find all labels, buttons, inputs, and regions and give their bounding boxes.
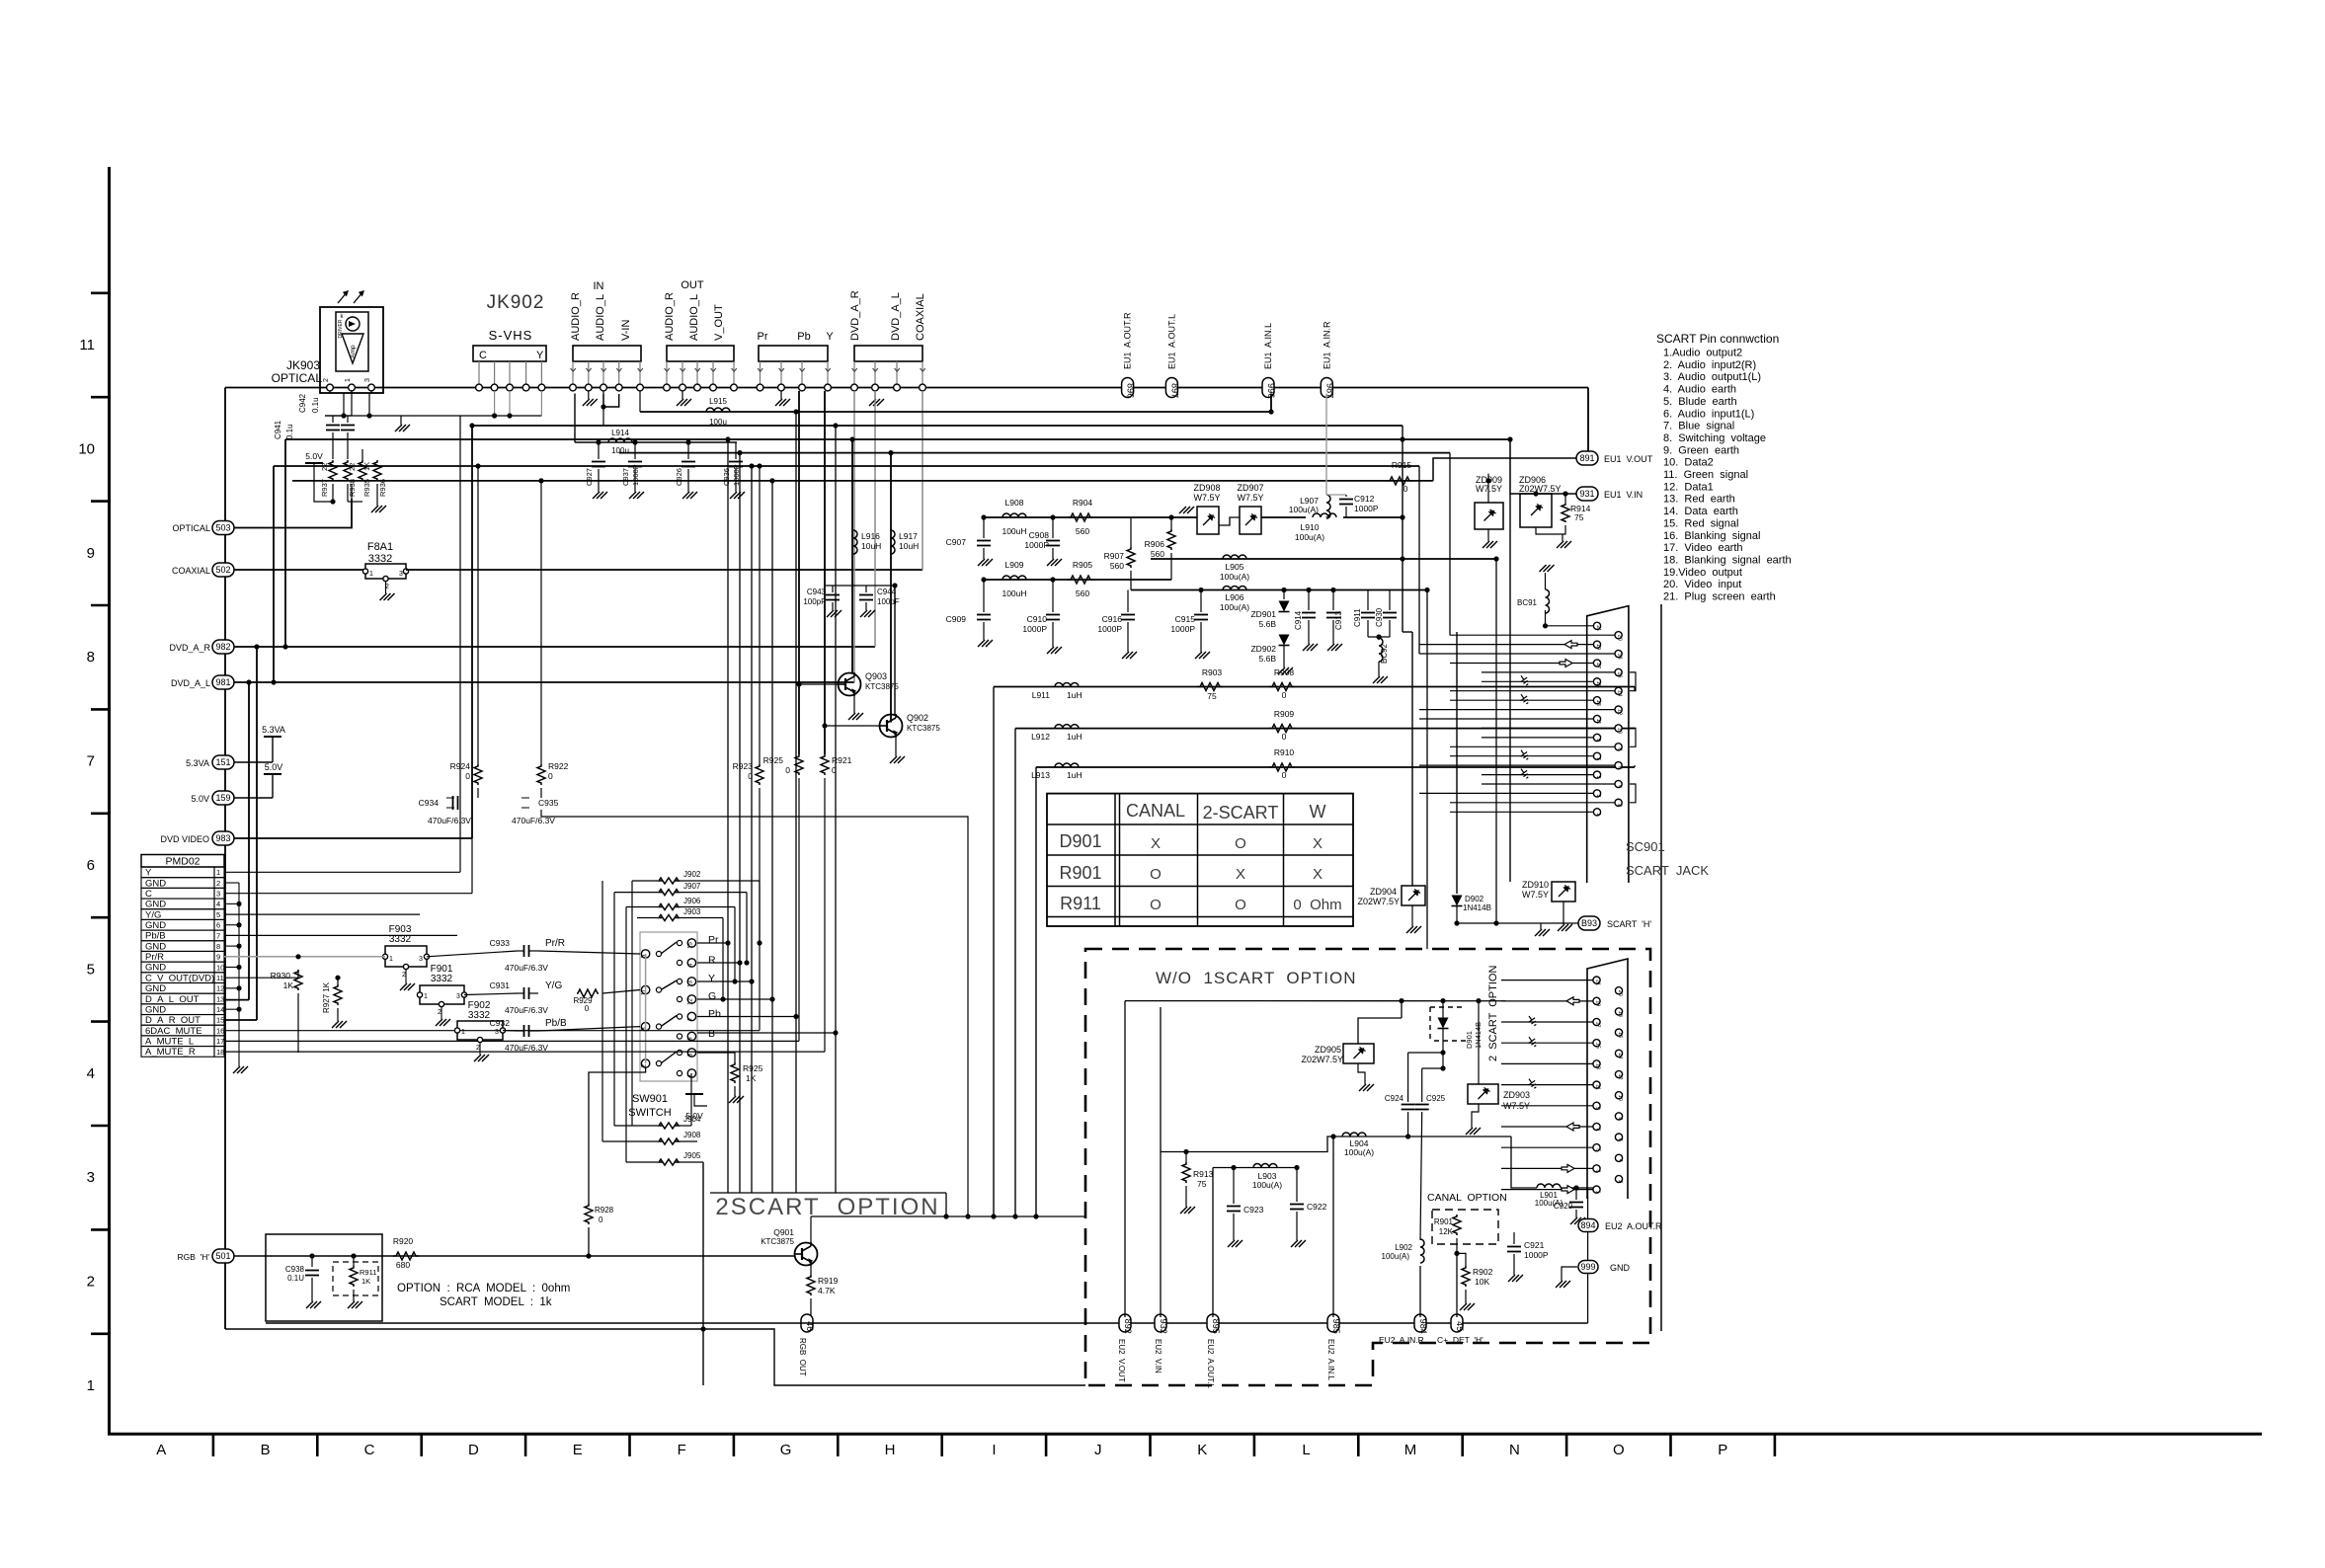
jumper J907 (678, 892, 747, 894)
svg-text:100pF: 100pF (877, 597, 900, 606)
svg-text:L902: L902 (1395, 1243, 1412, 1252)
svg-text:R922: R922 (548, 761, 569, 771)
svg-text:13: 13 (687, 980, 693, 987)
svg-text:G: G (780, 1442, 792, 1458)
wire F902 out (503, 1030, 518, 1033)
wire link upper right area (1634, 687, 1636, 691)
svg-text:Pb/B: Pb/B (145, 931, 166, 942)
oval EU1 V.OUT 891 (1576, 451, 1598, 465)
svg-text:19: 19 (1595, 1000, 1601, 1006)
svg-text:PMD02: PMD02 (165, 856, 200, 868)
svg-text:GND: GND (145, 941, 166, 952)
resistor R919 4.7K (807, 1275, 815, 1295)
svg-text:151: 151 (215, 757, 230, 767)
svg-text:W7.5Y: W7.5Y (1237, 493, 1263, 503)
svg-text:1K: 1K (283, 980, 294, 990)
wire row L913 (1036, 766, 1635, 768)
svg-text:100u(A): 100u(A) (1289, 505, 1319, 514)
svg-text:20. Video input: 20. Video input (1663, 579, 1741, 590)
svg-text:R: R (708, 955, 716, 967)
svg-text:R901: R901 (1434, 1217, 1454, 1226)
svg-text:J: J (1094, 1442, 1102, 1458)
svg-text:891: 891 (1579, 453, 1594, 463)
power 5.0V switch (685, 1093, 703, 1095)
resistor R920 680 (393, 1252, 419, 1260)
svg-text:15: 15 (216, 1016, 224, 1025)
svg-text:ZD905: ZD905 (1315, 1045, 1341, 1055)
svg-text:16: 16 (1617, 671, 1623, 677)
svg-text:R928: R928 (595, 1206, 614, 1215)
svg-text:R919: R919 (818, 1276, 839, 1286)
diode D902 1N414B (1452, 896, 1463, 906)
svg-text:EU2 V.IN: EU2 V.IN (1154, 1339, 1162, 1373)
svg-text:3: 3 (216, 890, 220, 899)
svg-text:7: 7 (1595, 757, 1601, 760)
wire jack lower stubs (1501, 980, 1593, 981)
oval EU2 A.OUT.R 894 (1578, 1219, 1598, 1232)
svg-text:12: 12 (1617, 1073, 1623, 1079)
wire verticals to options area (1402, 426, 1403, 632)
svg-text:R911: R911 (1060, 894, 1101, 913)
wire Y/G (224, 913, 420, 915)
svg-text:C_V_OUT(DVD): C_V_OUT(DVD) (145, 973, 214, 983)
inductor L906 100u(A) (1131, 589, 1427, 591)
inductor BC91 (1546, 589, 1550, 613)
svg-text:4.7K: 4.7K (818, 1286, 836, 1295)
svg-text:75: 75 (1197, 1179, 1207, 1189)
wire Pr/R grey (224, 956, 385, 958)
resistor R925 1K (731, 1062, 739, 1083)
svg-text:5.6B: 5.6B (1259, 654, 1277, 664)
svg-text:SC901: SC901 (1626, 839, 1665, 854)
svg-text:2: 2 (1617, 1180, 1623, 1183)
svg-text:C921: C921 (1524, 1240, 1545, 1250)
svg-text:Pb: Pb (708, 1008, 721, 1020)
ground stub near jk903 (400, 416, 402, 425)
wire mid bus 6 (292, 480, 1433, 482)
jumper J904 (678, 1125, 691, 1127)
capacitor C937 1000P (634, 442, 636, 459)
option component box (266, 1234, 382, 1321)
svg-text:C925: C925 (1426, 1094, 1446, 1103)
wire Pb/B (224, 934, 457, 936)
svg-text:100u(A): 100u(A) (1295, 532, 1324, 542)
svg-text:R930: R930 (271, 971, 291, 980)
svg-text:L915: L915 (709, 397, 727, 406)
svg-text:Y/G: Y/G (145, 909, 161, 920)
svg-text:GND: GND (145, 920, 166, 931)
svg-text:R911: R911 (360, 1268, 376, 1277)
svg-text:EU2 A.OUT.R: EU2 A.OUT.R (1605, 1221, 1662, 1231)
wire q901 collector (810, 1216, 812, 1243)
svg-text:3: 3 (1595, 794, 1601, 797)
svg-text:ZD908: ZD908 (1193, 483, 1220, 493)
svg-text:17: 17 (1595, 663, 1601, 668)
oval connector 159 (212, 791, 234, 805)
svg-text:EU1 V.IN: EU1 V.IN (1604, 490, 1643, 500)
svg-text:GND: GND (145, 983, 166, 994)
svg-text:680: 680 (396, 1260, 410, 1270)
capacitor C921 1000P (1513, 1232, 1515, 1244)
svg-text:W7.5Y: W7.5Y (1522, 890, 1549, 900)
jumper J906 (678, 906, 735, 908)
capacitor C925 (1421, 1068, 1423, 1102)
svg-text:4: 4 (216, 900, 220, 908)
svg-text:C922: C922 (1307, 1202, 1327, 1212)
svg-text:SCART MODEL : 1k: SCART MODEL : 1k (440, 1296, 552, 1308)
svg-text:21: 21 (1595, 980, 1601, 985)
svg-text:3332: 3332 (431, 974, 453, 984)
svg-text:Y: Y (145, 868, 152, 879)
svg-text:C935: C935 (538, 798, 559, 808)
svg-text:983: 983 (215, 833, 230, 843)
wire between zeners (1219, 517, 1240, 525)
svg-text:10: 10 (78, 440, 95, 457)
wire scart h (1457, 922, 1578, 924)
inductor BC92 (1379, 638, 1383, 662)
svg-text:C941: C941 (274, 420, 282, 439)
svg-text:J903: J903 (683, 907, 701, 916)
wire q903 base (799, 683, 839, 685)
capacitor C927 (598, 442, 600, 459)
wire c911 c930 bottom (1368, 636, 1390, 638)
svg-text:W: W (1310, 802, 1326, 822)
svg-text:20: 20 (1617, 990, 1623, 996)
svg-text:100uH: 100uH (1002, 526, 1026, 536)
svg-text:14: 14 (1617, 690, 1623, 696)
wire dvd video (234, 837, 472, 839)
svg-text:IN: IN (594, 280, 604, 292)
svg-text:SCART 'H': SCART 'H' (1607, 919, 1651, 929)
svg-text:J906: J906 (683, 897, 701, 905)
svg-text:5.0V: 5.0V (191, 794, 209, 804)
svg-text:C933: C933 (490, 938, 511, 948)
svg-text:1: 1 (1595, 813, 1601, 816)
svg-text:R902: R902 (1473, 1267, 1493, 1277)
svg-text:J902: J902 (683, 870, 701, 879)
svg-text:C910: C910 (1027, 614, 1048, 624)
wire svhs pins link (494, 391, 496, 416)
svg-text:6: 6 (87, 857, 95, 874)
svg-text:11. Green signal: 11. Green signal (1663, 469, 1748, 481)
svg-text:GND: GND (1610, 1263, 1631, 1273)
svg-text:Z02W7.5Y: Z02W7.5Y (1519, 484, 1562, 494)
svg-text:10uH: 10uH (861, 541, 881, 551)
svg-text:O: O (1613, 1442, 1625, 1458)
resistor R911 1K dashed (333, 1262, 378, 1295)
svg-text:J908: J908 (683, 1131, 701, 1139)
svg-text:Y: Y (826, 331, 834, 343)
resistor R915 0 (1387, 477, 1412, 485)
svg-text:Y: Y (708, 973, 715, 984)
switch SW901 left pins (641, 950, 649, 958)
svg-text:E: E (573, 1442, 583, 1458)
svg-text:C: C (479, 350, 487, 361)
svg-text:C907: C907 (946, 537, 967, 547)
svg-text:C936: C936 (722, 468, 731, 486)
svg-text:GND: GND (145, 963, 166, 974)
inductor L916 10uH (853, 530, 857, 554)
svg-text:H: H (885, 1442, 896, 1458)
wire zd907 to L910 (1261, 516, 1306, 518)
wire q902 base (825, 725, 880, 727)
svg-text:Y: Y (536, 350, 544, 361)
switch SW901 center pins (687, 939, 695, 947)
inductor L913 1uH (1055, 763, 1079, 767)
svg-text:1000P: 1000P (1354, 504, 1379, 513)
svg-text:896: 896 (1126, 383, 1136, 398)
svg-text:1N414B: 1N414B (1463, 903, 1491, 912)
svg-text:5: 5 (1595, 776, 1601, 779)
svg-text:100u(A): 100u(A) (1220, 602, 1249, 612)
svg-text:Z02W7.5Y: Z02W7.5Y (1301, 1055, 1343, 1064)
svg-text:EU2 A.IN.L: EU2 A.IN.L (1326, 1339, 1335, 1380)
svg-text:1000P: 1000P (1022, 624, 1047, 634)
resistor R902 10K (1462, 1266, 1470, 1287)
inductor L911 1uH (1055, 683, 1079, 687)
wire F901 out (464, 993, 518, 995)
svg-text:4: 4 (1617, 1159, 1623, 1162)
resistor R922 0 (537, 764, 545, 785)
bottom ruler ticks (212, 1434, 215, 1456)
svg-text:AUDIO_L: AUDIO_L (688, 294, 700, 341)
svg-text:0: 0 (785, 765, 790, 775)
svg-text:5.3VA: 5.3VA (186, 758, 209, 768)
svg-text:L916: L916 (861, 531, 880, 541)
svg-text:C923: C923 (1243, 1205, 1264, 1215)
wire DVD_A_L (234, 681, 854, 683)
svg-text:D: D (468, 1442, 479, 1458)
svg-text:21: 21 (1595, 625, 1601, 631)
svg-text:R920: R920 (393, 1236, 414, 1246)
resistor R905 560 (1068, 576, 1093, 584)
svg-text:C: C (364, 1442, 375, 1458)
svg-text:N: N (1509, 1442, 1520, 1458)
resistor R925 0 (795, 754, 803, 775)
svg-text:C930: C930 (1375, 607, 1384, 627)
svg-text:17. Video earth: 17. Video earth (1663, 542, 1743, 554)
resistor R914 75 (1562, 504, 1569, 522)
svg-text:6: 6 (1617, 1138, 1623, 1141)
svg-text:W7.5Y: W7.5Y (1193, 493, 1220, 503)
svg-text:1: 1 (345, 378, 352, 382)
svg-text:R910: R910 (1274, 747, 1295, 757)
svg-text:DVD_A_R: DVD_A_R (849, 290, 861, 341)
wire jack pin pair links (1630, 672, 1636, 691)
svg-text:17: 17 (1595, 1021, 1601, 1027)
wire F903 out to C933 (427, 951, 518, 957)
connector SCART jack lower body (1587, 959, 1628, 1199)
svg-text:R913: R913 (1193, 1169, 1214, 1179)
svg-text:S-VHS: S-VHS (489, 328, 533, 343)
svg-text:OPTICAL: OPTICAL (272, 371, 323, 385)
wire verticals density right (1426, 590, 1428, 950)
svg-text:1.Audio output2: 1.Audio output2 (1663, 348, 1742, 359)
svg-text:KTC3875: KTC3875 (761, 1237, 794, 1246)
svg-text:SCART Pin connwction: SCART Pin connwction (1656, 332, 1779, 346)
svg-text:1uH: 1uH (1067, 732, 1082, 742)
svg-text:7: 7 (1595, 1128, 1601, 1131)
wire left vertical trunk (224, 388, 226, 1330)
switch levers (661, 942, 677, 954)
wire coaxial (234, 569, 364, 571)
wire optical (234, 499, 352, 528)
svg-text:Pr: Pr (758, 331, 768, 343)
wire vertical x809 (798, 391, 800, 754)
svg-text:0: 0 (585, 1004, 590, 1013)
svg-text:502: 502 (215, 565, 230, 575)
wire row L911 (994, 686, 1635, 688)
svg-text:470uF/6.3V: 470uF/6.3V (505, 963, 548, 973)
capacitor C924 (1407, 1053, 1409, 1102)
svg-text:L909: L909 (1005, 560, 1024, 570)
resistor R930 1K (294, 970, 302, 990)
svg-text:9: 9 (87, 545, 95, 562)
svg-text:J907: J907 (683, 882, 701, 891)
oval EU2 A.OUT.L 895 (1207, 1314, 1219, 1332)
wire coaxial to DVD jack (406, 569, 922, 571)
svg-text:16: 16 (1617, 1032, 1623, 1038)
svg-text:10: 10 (216, 963, 224, 972)
svg-text:ZD903: ZD903 (1503, 1090, 1530, 1100)
svg-text:J904: J904 (683, 1115, 701, 1124)
svg-text:CANAL OPTION: CANAL OPTION (1427, 1192, 1507, 1204)
svg-text:5. Blude earth: 5. Blude earth (1663, 396, 1737, 408)
inductor L901 100u(A) (1537, 1184, 1561, 1188)
svg-text:7: 7 (87, 753, 95, 770)
svg-text:G: G (708, 990, 716, 1002)
connector JK903 OPTICAL (320, 307, 383, 393)
svg-text:3: 3 (495, 1029, 499, 1036)
wire COAXIAL pin drop (922, 391, 923, 570)
wire jack upper stubs (1419, 644, 1593, 646)
svg-text:3: 3 (419, 956, 423, 963)
svg-text:DVD_A_R: DVD_A_R (169, 643, 210, 653)
svg-text:985: 985 (1331, 1319, 1341, 1334)
jumper J902 (678, 880, 760, 882)
svg-text:9. Green earth: 9. Green earth (1663, 444, 1739, 456)
svg-text:C: C (145, 889, 152, 900)
wire mid bus 1 (640, 411, 1271, 413)
svg-text:5.6B: 5.6B (1259, 619, 1277, 629)
svg-text:C934: C934 (419, 798, 440, 808)
svg-text:100pF: 100pF (803, 597, 826, 606)
svg-text:KTC3875: KTC3875 (907, 724, 940, 733)
svg-text:ZD902: ZD902 (1250, 644, 1276, 654)
svg-text:9: 9 (1595, 739, 1601, 742)
capacitor C920 (1575, 1188, 1577, 1200)
svg-text:L: L (1302, 1442, 1310, 1458)
wire bottom rail B (225, 1329, 1085, 1385)
svg-text:5.3VA: 5.3VA (262, 725, 285, 735)
svg-text:3: 3 (87, 1169, 95, 1186)
wire EU1 V.IN feed (1510, 439, 1577, 494)
svg-text:18: 18 (216, 1048, 224, 1057)
svg-text:3: 3 (1595, 1169, 1601, 1172)
svg-text:2 SCART OPTION: 2 SCART OPTION (1487, 966, 1499, 1061)
wire L913 left leg (1035, 767, 1037, 1216)
wire DVD_A_R (234, 646, 875, 648)
svg-text:L910: L910 (1301, 522, 1320, 532)
inductor L908 100uH (1002, 513, 1026, 517)
switch common bar (645, 954, 647, 1063)
svg-text:1: 1 (1595, 1191, 1601, 1194)
SCART jack lower pins (1593, 977, 1600, 983)
drawing border frame (108, 167, 111, 1434)
svg-text:5.0V: 5.0V (305, 451, 323, 461)
svg-text:Pr: Pr (708, 934, 719, 946)
svg-text:11: 11 (642, 988, 648, 995)
svg-text:R903: R903 (1202, 667, 1223, 677)
svg-text:AUDIO_R: AUDIO_R (570, 292, 582, 341)
oval RGB OUT 46 (801, 1314, 813, 1332)
svg-text:4. Audio earth: 4. Audio earth (1663, 384, 1736, 396)
svg-text:470uF/6.3V: 470uF/6.3V (505, 1005, 548, 1015)
inductor L910 100u(A) (1313, 513, 1336, 517)
svg-text:R921: R921 (832, 755, 852, 765)
svg-text:L917: L917 (899, 531, 918, 541)
svg-text:Pr/R: Pr/R (145, 952, 164, 963)
wire wo box verticals (1124, 1001, 1126, 1317)
svg-text:O: O (1150, 897, 1162, 913)
svg-text:1000P: 1000P (1024, 540, 1049, 550)
wires PMD02 gnd pins (224, 882, 239, 884)
svg-text:EU1 V.OUT: EU1 V.OUT (1604, 454, 1653, 464)
svg-text:EU2 A.IN.R: EU2 A.IN.R (1379, 1335, 1424, 1345)
oval GND 999 (1578, 1261, 1598, 1274)
svg-text:L913: L913 (1031, 770, 1050, 780)
resistor R903 75 (1197, 683, 1223, 691)
svg-text:13: 13 (216, 994, 224, 1003)
wire F903 in (298, 956, 385, 958)
oval SCART H 893 (1578, 916, 1600, 930)
ground under Q903 (853, 696, 855, 713)
svg-text:15: 15 (1595, 681, 1601, 687)
svg-text:SW901: SW901 (632, 1093, 668, 1105)
svg-text:1: 1 (461, 1029, 465, 1036)
svg-text:B93: B93 (1581, 918, 1597, 928)
svg-text:3332: 3332 (468, 1010, 491, 1021)
svg-text:OPTION : RCA MODEL : 0ohm: OPTION : RCA MODEL : 0ohm (397, 1283, 570, 1294)
wire main top bus (225, 387, 1588, 389)
svg-text:6. Audio input1(L): 6. Audio input1(L) (1663, 408, 1754, 420)
wire mid bus 2 (603, 425, 1403, 427)
svg-text:3: 3 (399, 571, 403, 578)
wire DAC mute lines (224, 1030, 760, 1032)
svg-text:8: 8 (87, 649, 95, 666)
svg-text:V-IN: V-IN (620, 320, 632, 341)
svg-text:2: 2 (323, 378, 330, 382)
svg-text:EU1 A.OUT.L: EU1 A.OUT.L (1166, 314, 1176, 369)
svg-text:C914: C914 (1294, 610, 1303, 630)
svg-text:12K: 12K (1439, 1227, 1454, 1236)
ground under Pr pin (780, 391, 782, 399)
svg-text:1: 1 (424, 993, 428, 1000)
svg-text:503: 503 (215, 523, 230, 533)
svg-text:R908: R908 (1274, 667, 1295, 677)
wires PMD02 signal pins (224, 871, 460, 873)
wire mid bus 4 (619, 452, 1450, 454)
svg-text:892: 892 (1123, 1319, 1133, 1334)
wire rgb h line (234, 1255, 795, 1257)
svg-text:B: B (261, 1442, 271, 1458)
svg-text:12: 12 (216, 984, 224, 993)
svg-text:RGB OUT: RGB OUT (798, 1338, 807, 1376)
svg-text:100u(A): 100u(A) (1220, 572, 1249, 582)
svg-text:3: 3 (456, 993, 460, 1000)
wire bottom rail A (266, 1322, 1588, 1324)
svg-text:DVD_A_L: DVD_A_L (890, 292, 902, 341)
